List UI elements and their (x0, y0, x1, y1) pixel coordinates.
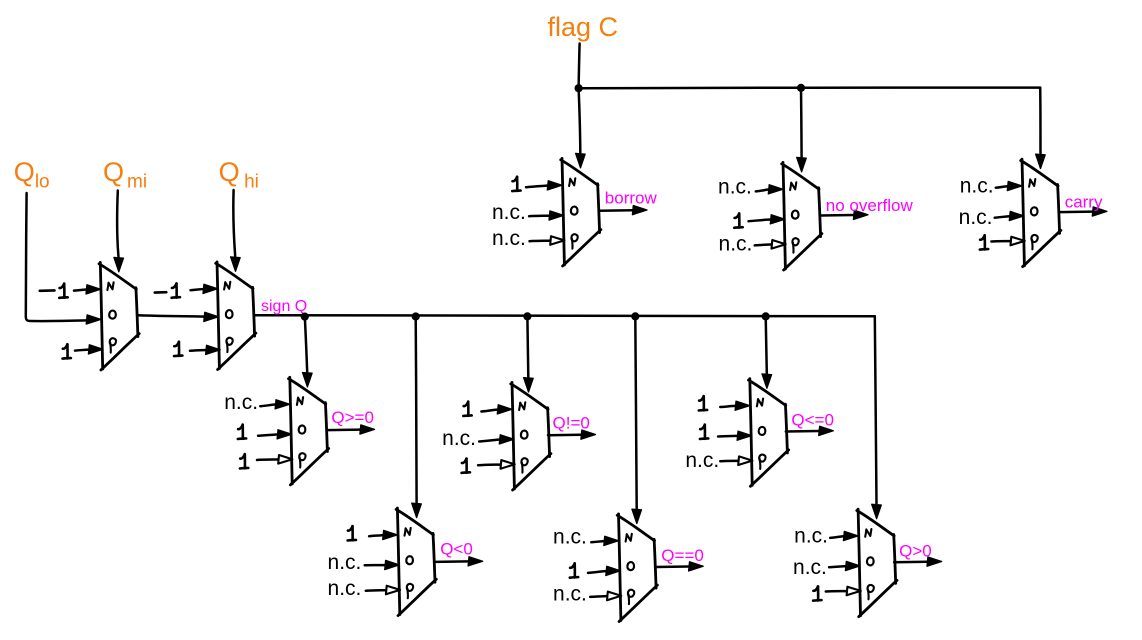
input value 1 (N) of Q!=0 mux (463, 402, 471, 416)
input value 1 (N) of Q&lt;0 mux (348, 526, 356, 540)
wire Q_lo lead (26, 193, 101, 324)
mux U11 (Q&gt;0 flag) (857, 509, 897, 617)
input value 1 (rho) of Q&gt;0 mux (813, 586, 821, 600)
svg-text:Q<0: Q<0 (440, 539, 473, 558)
wire 1 into rho of Q&gt;0 mux (826, 587, 861, 596)
mux B (sign stage 2) (216, 262, 256, 370)
mux U6 (Q&gt;=0 flag) (289, 377, 329, 485)
svg-text:Q==0: Q==0 (661, 546, 704, 565)
svg-text:n.c.: n.c. (793, 556, 827, 579)
wire select into Q&gt;0 mux (872, 316, 882, 518)
wire 1 into 0 of Q&gt;=0 mux (258, 430, 292, 439)
mux U7 (Q!=0 flag) (511, 382, 551, 490)
wire select into carry mux (1036, 88, 1046, 169)
mux U4 (no overflow flag) (782, 162, 822, 270)
wire 1 into 0 of Q==0 mux (588, 566, 620, 575)
wire -1 into N of mux A (74, 285, 101, 294)
svg-text:n.c.: n.c. (960, 174, 994, 197)
node junction sign Q / Q&gt;=0 branch (301, 313, 309, 321)
node junction sign Q / Q!=0 branch (523, 312, 531, 320)
svg-text:n.c.: n.c. (718, 175, 752, 198)
input value 1 (N) of Q&lt;=0 mux (699, 396, 707, 410)
wire 1 into 0 of Q&lt;=0 mux (718, 431, 752, 440)
wire select into Q&lt;=0 mux (762, 316, 772, 388)
wire select into Q&gt;=0 mux (303, 317, 313, 387)
svg-text:sign Q: sign Q (261, 298, 307, 315)
svg-text:n.c.: n.c. (492, 201, 526, 224)
svg-text:n.c.: n.c. (328, 577, 362, 600)
wire 1 into N of borrow mux (526, 181, 562, 190)
wire flag C vertical lead (579, 44, 580, 88)
node junction sign Q / Q&lt;=0 branch (762, 312, 770, 320)
wire n.c. into 0 of carry mux (995, 211, 1024, 220)
input value 1 (0) of Q==0 mux (570, 563, 578, 577)
wire Q==0 output (656, 562, 704, 571)
mux U5 (carry flag) (1021, 159, 1061, 267)
svg-text:Qlo: Qlo (14, 157, 50, 193)
wire n.c. into rho of borrow mux (530, 236, 565, 245)
wire 1 into rho of carry mux (991, 237, 1024, 246)
wire 1 into 0 of no-overflow mux (749, 215, 785, 224)
wire sign Q bus (254, 315, 875, 316)
svg-text:n.c.: n.c. (553, 526, 587, 549)
svg-text:borrow: borrow (605, 188, 658, 207)
mux U3 (borrow flag) (561, 158, 601, 266)
input value -1 (N) of mux B (155, 283, 180, 297)
wire 1 into rho of Q!=0 mux (478, 460, 515, 469)
svg-text:Q!=0: Q!=0 (553, 414, 590, 433)
input value 1 (P) of mux A (63, 344, 71, 358)
node junction flag C / no-overflow branch (797, 84, 805, 92)
wire 1 into rho of Q&gt;=0 mux (257, 455, 292, 464)
wire 1 into N of Q&lt;0 mux (369, 530, 397, 539)
svg-text:Q>0: Q>0 (899, 542, 932, 561)
wire select into borrow mux (576, 88, 586, 168)
wire no-overflow output (821, 210, 869, 219)
wire Q&lt;0 output (435, 557, 483, 566)
input value 1 (0) of Q&lt;=0 mux (700, 425, 708, 439)
wire n.c. into 0 of borrow mux (529, 211, 564, 220)
node junction sign Q / Q==0 branch (631, 312, 639, 320)
mux U8 (Q&lt;=0 flag) (749, 379, 789, 487)
input value 1 (P) of mux B (174, 342, 182, 356)
svg-text:n.c.: n.c. (719, 232, 753, 255)
svg-text:n.c.: n.c. (492, 227, 526, 250)
svg-text:n.c.: n.c. (794, 525, 828, 548)
svg-text:Q>=0: Q>=0 (331, 408, 374, 427)
input value -1 (N) of mux A (40, 284, 68, 298)
wire n.c. into rho of no-overflow mux (755, 240, 786, 249)
wire Q&lt;=0 output (786, 426, 834, 435)
wire Q&gt;0 output (894, 557, 942, 566)
wire n.c. into 0 of Q&lt;0 mux (365, 560, 400, 569)
wire n.c. into 0 of Q&gt;0 mux (829, 561, 860, 570)
input value 1 (N) of borrow mux (512, 177, 520, 191)
wire n.c. into 0 of Q!=0 mux (479, 435, 514, 444)
wire n.c. into N of carry mux (996, 181, 1022, 190)
wire n.c. into N of Q==0 mux (591, 536, 618, 545)
wire n.c. into rho of Q&lt;=0 mux (720, 456, 752, 465)
wire n.c. into N of no-overflow mux (756, 185, 783, 194)
svg-text:n.c.: n.c. (224, 391, 258, 414)
wire 1 into P of mux B (190, 345, 220, 354)
wire select into Q!=0 mux (524, 316, 534, 392)
input value 1 (rho) of Q&gt;=0 mux (240, 454, 248, 468)
svg-text:no overflow: no overflow (826, 196, 914, 215)
input value 1 (rho) of carry mux (980, 235, 988, 249)
wire n.c. into N of Q&gt;0 mux (830, 531, 858, 540)
svg-text:flag C: flag C (548, 12, 619, 42)
svg-text:n.c.: n.c. (328, 551, 362, 574)
wire select into Q&lt;0 mux (412, 317, 422, 518)
wire Q_mi select into mux A (114, 191, 124, 272)
svg-text:Q<=0: Q<=0 (791, 411, 834, 430)
svg-text:n.c.: n.c. (959, 206, 993, 229)
svg-text:Qhi: Qhi (219, 157, 259, 193)
input value 1 (0) of no-overflow mux (734, 213, 742, 227)
wire select into Q==0 mux (632, 316, 642, 523)
svg-text:Qmi: Qmi (103, 157, 147, 193)
mux A (sign stage 1) (99, 262, 139, 370)
wire -1 into N of mux B (191, 284, 218, 293)
wire 1 into P of mux A (75, 345, 103, 354)
svg-text:n.c.: n.c. (442, 427, 476, 450)
svg-text:n.c.: n.c. (553, 583, 587, 606)
wire n.c. into rho of Q==0 mux (590, 592, 621, 601)
mux U10 (Q==0 flag) (617, 514, 657, 622)
wire borrow output (600, 206, 648, 215)
mux U9 (Q&lt;0 flag) (396, 508, 436, 616)
input value 1 (rho) of Q!=0 mux (462, 459, 470, 473)
input value 1 (0) of Q&gt;=0 mux (238, 425, 246, 439)
wire Q!=0 output (548, 430, 596, 439)
wire n.c. into rho of Q&lt;0 mux (366, 586, 400, 595)
wire mux A output to mux B input 0 (138, 312, 219, 321)
wire 1 into N of Q&lt;=0 mux (720, 401, 749, 410)
node junction flag C / borrow branch (575, 84, 583, 92)
svg-text:n.c.: n.c. (685, 449, 719, 472)
wire 1 into N of Q!=0 mux (481, 405, 512, 414)
wire Q_hi select into mux B (231, 190, 241, 271)
svg-text:carry: carry (1065, 193, 1103, 212)
wire n.c. into N of Q&gt;=0 mux (260, 400, 289, 409)
node junction sign Q / Q&lt;0 branch (412, 312, 420, 320)
wire select into no-overflow mux (797, 88, 807, 172)
wire Q&gt;=0 output (327, 425, 375, 434)
wire flag C horizontal bus (579, 86, 1041, 89)
wire carry output (1059, 207, 1107, 216)
